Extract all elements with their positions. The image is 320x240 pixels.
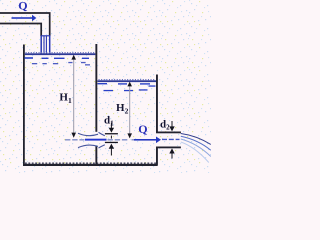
supply pipe inner wall (bottom/left) <box>0 24 41 37</box>
tank 2 water surface line <box>98 80 157 82</box>
mouthpiece top plate <box>156 132 181 134</box>
d1 dimension middle tick <box>111 136 112 139</box>
jet axis dashes inside mouthpiece <box>162 138 180 140</box>
H2 bottom arrowhead <box>127 133 132 138</box>
H1 dimension line <box>73 58 74 133</box>
outflow jet curve 4 <box>181 142 209 163</box>
d2 dimension top arrow <box>172 121 173 127</box>
pipe end strainer section <box>41 36 51 55</box>
tank 2 right wall lower segment <box>156 147 158 165</box>
H1 top arrowhead <box>71 55 76 60</box>
tank bottom hatch ticks <box>25 162 156 164</box>
partition wall lower segment <box>95 146 97 166</box>
tank 2 water dashes row 1 <box>98 83 156 87</box>
orifice d1 streamline upper-left <box>78 133 98 135</box>
d1 dimension bottom arrow <box>109 144 114 149</box>
outflow jet curve 1 <box>181 134 211 145</box>
orifice d1 streamline upper-right <box>99 132 105 135</box>
outflow arrow <box>134 137 161 144</box>
H2 dimension line <box>129 85 130 134</box>
tank 1 water surface line <box>25 53 96 55</box>
outflow jet curve 3 <box>181 139 211 157</box>
tank 2 right wall upper segment <box>156 75 158 133</box>
d1 dimension bottom edge bar <box>105 142 118 143</box>
svg-text:Q: Q <box>18 0 27 12</box>
tank 2 surface serration ticks <box>99 79 156 81</box>
tank 1 water dashes row 1 <box>25 57 90 59</box>
partition wall upper segment (between tank 1 and tank 2) <box>95 44 97 132</box>
tank 1 left wall <box>23 45 25 167</box>
d1 dimension top edge bar <box>105 133 118 134</box>
orifice d1 streamline lower-right <box>99 145 105 148</box>
H1 bottom arrowhead <box>71 133 76 138</box>
tank 2 water dashes row 2 <box>104 89 148 91</box>
tank bottom <box>23 164 158 166</box>
d2 dimension bottom arrow <box>169 148 174 153</box>
jet axis dashed line left of orifice <box>65 139 85 141</box>
inflow arrow <box>12 15 37 22</box>
outflow jet curve 2 <box>181 136 211 150</box>
tank 1 surface serration ticks <box>26 52 96 54</box>
supply pipe outer wall (top/right) <box>0 13 50 36</box>
d1 dimension top arrow <box>111 123 112 129</box>
svg-text:Q: Q <box>138 122 147 136</box>
jet axis dashed line right of orifice <box>108 139 128 141</box>
jet axis dashes under H2 arrow <box>132 139 135 141</box>
H2 top arrowhead <box>127 82 132 87</box>
orifice d1 streamline lower-left <box>78 145 98 148</box>
mouthpiece bottom plate <box>156 147 181 149</box>
jet through orifice d1 <box>85 139 107 141</box>
tank 1 water dashes row 2 <box>32 62 90 66</box>
